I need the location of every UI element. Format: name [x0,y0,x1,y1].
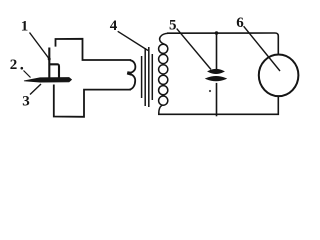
wire: bottom horizontal [158,97,278,115]
svg-text:1: 1 [21,19,29,35]
leader line 4 [118,31,148,50]
leader line 6 [244,26,280,71]
leader line 5 [177,29,211,70]
svg-text:6: 6 [236,15,244,31]
svg-text:2: 2 [10,57,18,73]
contact hook [49,64,59,78]
wire: top horizontal [167,33,278,55]
junction node top of capacitor [215,31,219,35]
receiver circle (6) [259,55,299,97]
microphone case outline (left box with horn tube) [56,39,132,60]
capacitor C (5) [216,33,218,69]
horn tube end cap with curl (3-shape) [128,60,136,89]
leader line 2 [21,67,24,70]
transformer core (4) [141,56,143,98]
svg-text:3: 3 [22,94,30,110]
carbon bar (2,3) [24,78,72,83]
svg-text:5: 5 [169,17,177,33]
leader line 1 [30,33,50,60]
transformer secondary coil (5 side) [159,33,169,114]
electrode pin (1) [48,48,50,78]
leader line 3 [30,84,41,95]
svg-text:4: 4 [110,18,118,34]
